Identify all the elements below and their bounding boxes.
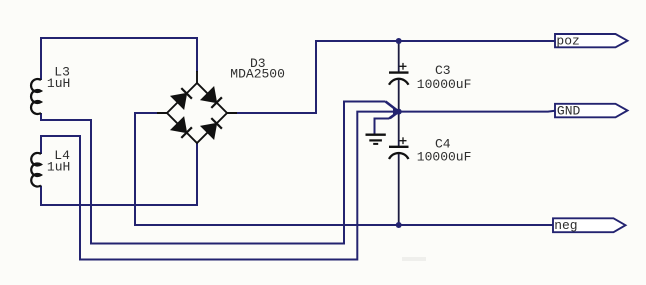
faint erased artifact [402, 257, 426, 261]
svg-text:neg: neg [554, 218, 577, 233]
diode D3 bottom-left [171, 117, 192, 138]
diode D3 bottom-right [201, 118, 222, 139]
wire bridge right corner to poz port [236, 41, 556, 113]
capacitor C4 pin bottom [398, 154, 400, 225]
node junction dot on poz rail [396, 38, 402, 44]
svg-text:poz: poz [556, 33, 579, 48]
svg-text:10000uF: 10000uF [417, 150, 472, 165]
wire L4 bottom to bridge bottom corner [41, 143, 197, 205]
node junction dot at GND [396, 109, 402, 115]
port poz [555, 33, 628, 48]
svg-text:1uH: 1uH [47, 76, 70, 91]
node arrowhead at GND junction [393, 108, 400, 116]
wire GND junction to GND port [399, 110, 555, 113]
wire L3 top to bridge top corner [41, 38, 197, 80]
capacitor C4 [389, 147, 409, 159]
wire ground branch from GND node [375, 112, 399, 134]
svg-text:1uH: 1uH [47, 159, 70, 174]
svg-text:GND: GND [557, 104, 581, 119]
C4 plus sign [400, 137, 407, 144]
wire L4 top to GND junction [41, 112, 396, 260]
inductor L4 [31, 153, 41, 187]
node junction dot on neg rail [396, 222, 402, 228]
inductor L3 [31, 79, 41, 114]
ground [366, 135, 386, 144]
svg-text:C3: C3 [435, 63, 451, 78]
capacitor C4 pin top [398, 112, 400, 146]
capacitor C3 pin top [398, 41, 400, 72]
capacitor C3 [389, 73, 409, 85]
diode D3 top-right [201, 87, 222, 108]
wire L3 bottom to GND junction [41, 102, 386, 244]
wire arrow entry thick segment to ground [390, 112, 399, 119]
wire arrow entry from L3 into GND node [386, 102, 399, 112]
C3 plus sign [400, 63, 407, 70]
port neg [553, 218, 626, 233]
wire bridge left corner to neg port [135, 113, 554, 225]
capacitor C3 pin bottom [398, 80, 400, 112]
diode D3 top-left [171, 88, 192, 109]
port GND [555, 104, 628, 119]
svg-text:10000uF: 10000uF [417, 77, 472, 92]
bridge rectifier D3 outline [157, 71, 237, 143]
svg-text:MDA2500: MDA2500 [230, 67, 285, 82]
